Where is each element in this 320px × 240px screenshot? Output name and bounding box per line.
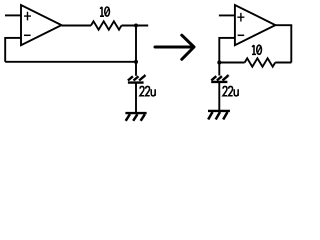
capacitor C2 hatched plate (right) bbox=[211, 76, 227, 80]
label: R2 value 10 bbox=[252, 45, 261, 54]
wire: left circuit inverting input bbox=[5, 37, 21, 39]
wire: right circuit inverting input bbox=[219, 37, 235, 39]
wire: resistor to output vertical (right) bbox=[275, 62, 291, 64]
resistor R2 10 ohm (right) bbox=[245, 58, 276, 66]
wire: right junction to resistor bbox=[219, 62, 244, 64]
ground (left) hatching bbox=[126, 114, 145, 121]
capacitor C1 bottom plate (left) bbox=[128, 81, 144, 83]
op-amp U2 minus-input symbol bbox=[238, 34, 245, 36]
wire: left op-amp output to resistor bbox=[62, 25, 92, 27]
node: right feedback junction bbox=[217, 61, 221, 65]
op-amp U1 minus-input symbol bbox=[24, 34, 31, 36]
wire: right output vertical bbox=[290, 25, 292, 62]
label: C2 value 22u bbox=[223, 86, 238, 95]
capacitor C2 polarity plus bbox=[226, 74, 229, 77]
wire: right feedback vertical down to capacitor bbox=[218, 37, 220, 76]
node: left feedback tap junction bbox=[134, 60, 138, 64]
op-amp U2 (right) bbox=[235, 5, 276, 45]
node: left output junction bbox=[134, 24, 138, 28]
wire: left output node down to capacitor bbox=[135, 26, 137, 76]
op-amp U1 plus-input symbol bbox=[24, 12, 31, 21]
ground (left) bar bbox=[125, 112, 146, 114]
wire: left feedback bottom run bbox=[5, 61, 136, 63]
op-amp U1 (left) bbox=[21, 5, 62, 45]
op-amp U2 plus-input symbol bbox=[237, 13, 244, 22]
wire: left feedback vertical (left side) bbox=[4, 37, 6, 62]
label: C1 value 22u bbox=[140, 86, 155, 95]
wire: capacitor to ground (left) bbox=[135, 83, 137, 113]
ground (right) hatching bbox=[208, 112, 227, 120]
wire: capacitor to ground (right) bbox=[218, 82, 220, 110]
arrow between circuits bbox=[155, 35, 194, 59]
capacitor C1 polarity plus bbox=[143, 74, 146, 77]
resistor R1 10 ohm (left) bbox=[91, 21, 122, 29]
capacitor C2 bottom plate (right) bbox=[211, 81, 227, 83]
ground (right) bar bbox=[208, 110, 230, 112]
wire: resistor to output node bbox=[122, 25, 149, 27]
capacitor C1 hatched plate (left) bbox=[128, 76, 144, 80]
label: R1 value 10 bbox=[100, 7, 109, 16]
wire: right op-amp output bbox=[275, 24, 292, 26]
wire: right circuit noninverting input bbox=[219, 14, 235, 16]
wire: left circuit noninverting input bbox=[5, 14, 21, 16]
